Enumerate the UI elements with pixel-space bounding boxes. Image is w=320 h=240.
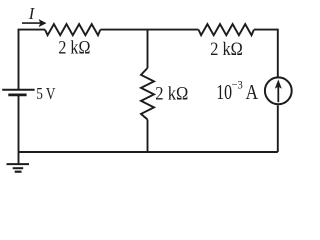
current source U1 circle: [265, 77, 292, 104]
battery V1 5V: short thick plate: [8, 94, 26, 97]
ground bar 3: [15, 171, 22, 173]
current arrow I shaft: [22, 22, 41, 24]
wire top-middle segment: [100, 29, 198, 31]
wire top-right corner down to current source: [254, 30, 278, 77]
svg-text:I: I: [28, 4, 36, 23]
battery V1 5V: long plate: [2, 89, 34, 91]
svg-text:5 V: 5 V: [36, 84, 56, 103]
svg-text:10: 10: [216, 80, 232, 104]
wire bottom: [19, 151, 278, 153]
svg-text:2 kΩ: 2 kΩ: [210, 40, 243, 60]
current source arrowhead: [275, 79, 282, 88]
current source arrow shaft: [277, 85, 279, 102]
svg-text:2 kΩ: 2 kΩ: [155, 84, 188, 104]
wire middle branch bottom: [147, 120, 149, 153]
current arrow I head: [39, 19, 47, 27]
resistor R3 2 kOhm middle vertical: [141, 68, 154, 120]
svg-text:2 kΩ: 2 kΩ: [58, 39, 90, 59]
wire middle branch top: [147, 30, 149, 68]
svg-text:−3: −3: [232, 80, 243, 92]
wire current source bottom to bottom-right corner: [277, 105, 279, 152]
wire battery bottom to ground: [18, 95, 20, 164]
wire top-left segment: [19, 30, 46, 90]
svg-text:A: A: [246, 80, 259, 104]
resistor R1 2 kOhm top-left: [45, 24, 100, 35]
ground bar 1: [7, 163, 30, 165]
resistor R2 2 kOhm top-right: [199, 24, 254, 35]
ground bar 2: [13, 167, 24, 169]
